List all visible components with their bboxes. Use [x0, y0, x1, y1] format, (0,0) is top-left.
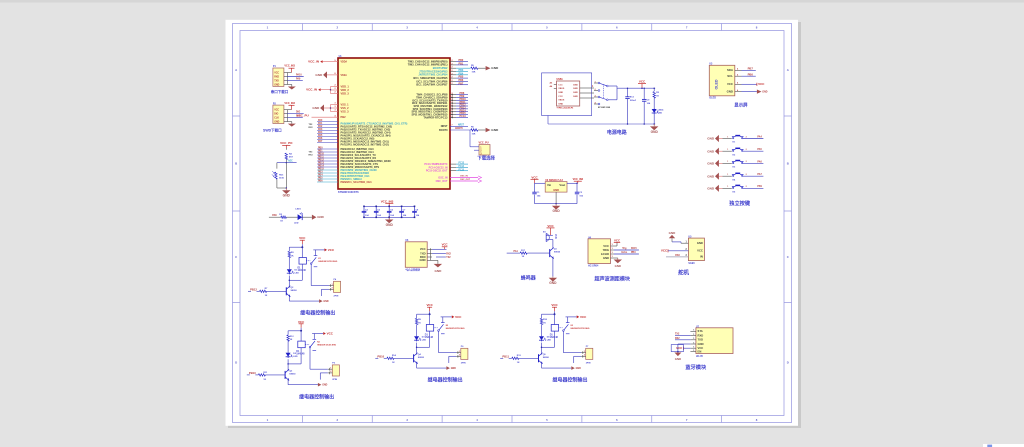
svg-text:VSS_2: VSS_2	[341, 106, 350, 110]
svg-text:PB7: PB7	[748, 67, 754, 71]
ground dot matrix	[432, 260, 442, 272]
svg-text:VCC: VCC	[274, 72, 279, 74]
svg-text:OSC_IN: OSC_IN	[460, 176, 468, 178]
svg-text:RX2: RX2	[446, 253, 451, 255]
power flag VCC relay K3	[542, 303, 559, 315]
svg-text:PB12: PB12	[250, 287, 257, 291]
ground power circuit	[650, 124, 658, 134]
ground OLED	[742, 90, 768, 94]
svg-text:2: 2	[452, 96, 453, 98]
label display	[734, 101, 748, 108]
ground LED1	[312, 215, 325, 220]
svg-text:PC13: PC13	[460, 115, 467, 118]
ground pins VSS	[312, 103, 338, 112]
svg-text:K2: K2	[446, 325, 448, 327]
svg-text:GND: GND	[558, 104, 563, 106]
svg-text:D: D	[235, 361, 237, 365]
svg-text:GND: GND	[727, 89, 733, 93]
power flag VCC relay K4	[288, 320, 305, 332]
svg-text:2PIN: 2PIN	[586, 362, 591, 364]
svg-text:PA4: PA4	[757, 135, 762, 138]
svg-text:PB1: PB1	[459, 63, 464, 66]
svg-text:TX2: TX2	[446, 257, 451, 259]
svg-text:1K: 1K	[280, 220, 283, 222]
svg-text:3: 3	[335, 110, 336, 112]
svg-text:PA6: PA6	[318, 137, 323, 140]
svg-text:CLK: CLK	[274, 117, 279, 119]
regulator U2 AMS1117-3.3	[535, 179, 578, 192]
connector U4 HC-SR04 ultrasonic	[588, 236, 614, 267]
svg-text:蜂鸣器: 蜂鸣器	[521, 274, 537, 281]
label relay control output 4	[553, 377, 588, 384]
resistor R14 1K base	[375, 354, 413, 364]
svg-text:2: 2	[452, 80, 453, 82]
svg-text:GND: GND	[707, 137, 715, 141]
svg-text:PB6/I2C1_SCL/TIM4_CH1: PB6/I2C1_SCL/TIM4_CH1	[341, 180, 373, 184]
svg-text:GND: GND	[707, 162, 715, 166]
connector P6 relay output	[439, 346, 468, 364]
svg-text:GND: GND	[615, 264, 621, 268]
svg-text:2PIN: 2PIN	[332, 379, 337, 381]
transistor Q3 S8050	[285, 369, 296, 380]
wire OLED SDA SCL	[742, 67, 756, 77]
svg-text:K3: K3	[571, 325, 573, 327]
svg-text:显示屏: 显示屏	[734, 101, 748, 108]
svg-text:PA1: PA1	[318, 122, 323, 125]
connector U6 dot matrix	[405, 240, 432, 271]
svg-text:TAMPER-RTC/PC13: TAMPER-RTC/PC13	[423, 115, 448, 119]
svg-text:1: 1	[727, 186, 728, 188]
ground relay K1	[289, 289, 329, 303]
svg-text:2: 2	[452, 113, 453, 115]
svg-text:2: 2	[452, 110, 453, 112]
capacitor C4 104	[362, 206, 370, 219]
svg-text:SG90: SG90	[688, 262, 695, 265]
svg-text:电源电路: 电源电路	[607, 129, 627, 136]
svg-text:PB12: PB12	[318, 160, 325, 162]
node ADC divider	[277, 160, 297, 164]
svg-text:LED: LED	[422, 339, 427, 341]
svg-text:1: 1	[727, 161, 728, 163]
power flag VCC relay contact K2	[441, 315, 463, 319]
wire MCU right pins group middle	[450, 92, 468, 118]
resistor R2 1K	[653, 87, 660, 108]
svg-text:GND: GND	[573, 84, 578, 86]
connector P1 serial download port	[273, 65, 296, 87]
svg-text:VDDA: VDDA	[341, 60, 348, 63]
ground relay K3	[542, 356, 582, 370]
svg-text:2: 2	[452, 104, 453, 106]
power flag VCC_IN pins VDD	[306, 85, 338, 94]
resistor R4 4K7	[285, 148, 294, 163]
svg-text:RXD: RXD	[420, 255, 426, 259]
svg-text:VCC_IN: VCC_IN	[308, 60, 319, 64]
svg-text:PA5: PA5	[757, 148, 762, 151]
svg-text:GND: GND	[697, 241, 703, 245]
svg-text:2: 2	[452, 102, 453, 104]
svg-text:PB0: PB0	[318, 148, 323, 150]
svg-text:VCC_IN: VCC_IN	[306, 88, 317, 92]
wire MCU right pins group upper	[450, 59, 468, 85]
ground P2	[287, 122, 296, 127]
svg-text:GND: GND	[603, 256, 609, 260]
ground bluetooth	[674, 344, 690, 361]
connector U7 bluetooth HC-05	[690, 326, 733, 358]
svg-text:VCC: VCC	[299, 236, 306, 240]
svg-text:1K: 1K	[517, 362, 520, 364]
svg-text:VCC: VCC	[274, 109, 279, 111]
svg-text:GND: GND	[675, 357, 681, 361]
resistor R10 1K relay LED	[540, 314, 547, 335]
LED D4 relay indicator	[539, 335, 551, 354]
switch S5 tact button	[723, 185, 764, 193]
svg-text:VCC: VCC	[758, 82, 765, 86]
svg-text:VCC: VCC	[697, 249, 703, 253]
resistor R12 1K relay LED	[287, 331, 294, 352]
svg-text:5516: 5516	[279, 177, 285, 179]
svg-text:GND: GND	[549, 281, 557, 285]
svg-text:继电器控制输出: 继电器控制输出	[300, 310, 335, 317]
svg-text:下载选择: 下载选择	[477, 154, 495, 161]
power flag VCC bluetooth	[671, 345, 690, 352]
wire USB to switch	[580, 85, 594, 98]
svg-text:GND: GND	[315, 73, 323, 77]
label relay control output 2	[299, 393, 334, 400]
resistor R17 1K buzzer base	[507, 250, 550, 258]
svg-text:PA1: PA1	[514, 250, 519, 253]
svg-text:PB5: PB5	[318, 178, 323, 180]
svg-text:PA0: PA0	[318, 119, 323, 122]
capacitor EC1 220uF	[625, 87, 636, 124]
svg-text:VCC: VCC	[442, 243, 448, 247]
svg-text:PA10: PA10	[296, 74, 302, 77]
svg-text:2PIN: 2PIN	[334, 295, 339, 297]
svg-text:USB1: USB1	[557, 79, 564, 81]
svg-text:PA7: PA7	[757, 173, 762, 176]
svg-text:2: 2	[335, 88, 336, 90]
transistor Q2 S8050	[286, 286, 297, 297]
svg-text:PB14: PB14	[318, 165, 325, 168]
power flag VCC relay contact K3	[566, 315, 588, 319]
ground ultrasonic	[614, 258, 622, 268]
svg-text:VCC: VCC	[614, 238, 620, 242]
wire port A pins PA0-PA7	[309, 119, 339, 143]
svg-text:GND: GND	[707, 186, 715, 190]
resistor R8 1K relay LED	[288, 247, 294, 268]
svg-text:220uF: 220uF	[630, 100, 637, 102]
svg-text:VCC: VCC	[661, 249, 668, 253]
resistor R11 1K base	[247, 371, 285, 381]
svg-text:S8050: S8050	[289, 373, 296, 375]
ground key S2	[707, 148, 722, 155]
svg-text:1K: 1K	[265, 295, 268, 297]
svg-text:VCC: VCC	[603, 244, 609, 248]
ground P1	[287, 85, 296, 90]
connector P3 boot select	[470, 130, 490, 156]
svg-text:C: C	[787, 255, 789, 259]
svg-text:PA3: PA3	[318, 128, 323, 131]
switch S3 tact button	[723, 160, 764, 168]
wire P1 TX/RX nets	[287, 74, 303, 81]
svg-text:OLED: OLED	[715, 79, 719, 89]
svg-text:Vout: Vout	[559, 183, 565, 187]
svg-text:HC-05: HC-05	[696, 355, 704, 358]
svg-text:PA8: PA8	[272, 214, 277, 217]
svg-text:7: 7	[452, 125, 453, 127]
ground cap bank	[385, 217, 393, 227]
LED D1 relay indicator	[287, 268, 299, 287]
wire dot matrix TXD RXD	[432, 253, 452, 258]
power flag VCC main	[638, 80, 646, 89]
svg-text:PC15: PC15	[459, 169, 465, 171]
svg-text:LED1: LED1	[295, 209, 301, 211]
svg-text:S8050: S8050	[418, 357, 425, 359]
svg-text:PA6: PA6	[757, 160, 762, 163]
ground key S1	[707, 135, 722, 142]
svg-text:VSS_1: VSS_1	[341, 102, 350, 106]
svg-text:OLED: OLED	[709, 97, 716, 100]
svg-text:PB15: PB15	[318, 169, 325, 171]
svg-text:继电器控制输出: 继电器控制输出	[299, 393, 334, 400]
LED D3 relay indicator	[414, 335, 426, 354]
label servo	[678, 269, 689, 277]
connector U5 servo SG90	[688, 237, 704, 265]
svg-text:VCC: VCC	[328, 248, 335, 252]
svg-text:PC15-OSC32_OUT: PC15-OSC32_OUT	[426, 170, 448, 173]
svg-text:1K: 1K	[263, 379, 266, 381]
svg-text:蓝牙模块: 蓝牙模块	[685, 363, 707, 371]
svg-text:TRIG: TRIG	[603, 248, 610, 252]
svg-text:PA15: PA15	[631, 247, 637, 250]
wire USB loop	[542, 73, 592, 124]
svg-text:NRST: NRST	[441, 125, 448, 128]
svg-text:PA7(SPI1_MOSI/ADC12_IN7/TIM3_C: PA7(SPI1_MOSI/ADC12_IN7/TIM3_CH2)	[341, 142, 389, 146]
svg-text:VCC_IN3: VCC_IN3	[284, 65, 295, 68]
svg-text:VCC_IN3: VCC_IN3	[284, 102, 295, 105]
switch S4 tact button	[723, 173, 764, 181]
svg-text:PB13: PB13	[318, 163, 325, 165]
svg-text:GND: GND	[707, 149, 715, 153]
svg-text:S8050: S8050	[291, 290, 298, 292]
relay K2 coil	[416, 314, 434, 348]
capacitor C9 104	[642, 87, 651, 124]
ground pull-down BOOT0	[486, 128, 499, 132]
svg-text:TXD: TXD	[274, 80, 279, 82]
label ultrasonic module	[594, 275, 631, 282]
svg-text:1: 1	[727, 149, 728, 151]
relay K4 contact	[305, 334, 336, 370]
power flag VCC servo	[661, 249, 689, 253]
ground photoresistor	[282, 163, 290, 198]
svg-text:1N4148: 1N4148	[425, 336, 434, 339]
svg-text:A: A	[787, 68, 789, 72]
svg-text:RXD: RXD	[698, 333, 704, 337]
svg-text:KF108P-0SB: KF108P-0SB	[598, 107, 611, 109]
transistor Q1 S8050	[550, 240, 561, 259]
svg-text:K1: K1	[318, 258, 320, 260]
label SWD download port	[263, 128, 282, 133]
svg-text:SCL: SCL	[727, 74, 733, 78]
wire Trig Echo	[614, 247, 639, 254]
power flag VCC relay K1	[289, 236, 306, 248]
svg-text:2: 2	[452, 107, 453, 109]
relay K3 coil	[541, 314, 559, 348]
power flag VCC_IN pin VDDA	[308, 60, 338, 64]
svg-text:2: 2	[746, 161, 747, 163]
op-amp U1 STM32F103C8T6 microcontroller	[338, 56, 450, 194]
svg-text:独立按键: 独立按键	[729, 199, 751, 207]
relay K1 coil	[289, 247, 307, 281]
svg-text:2: 2	[452, 93, 453, 95]
svg-text:VCC_IN3: VCC_IN3	[381, 199, 394, 203]
wire switch to rail	[548, 86, 655, 124]
svg-text:GND: GND	[386, 223, 394, 227]
power flag VCC regulator input	[531, 175, 539, 183]
svg-text:LED: LED	[295, 272, 300, 274]
svg-text:3: 3	[335, 106, 336, 108]
svg-text:10K: 10K	[472, 133, 476, 135]
ground key S4	[707, 173, 722, 180]
label power circuit	[607, 129, 627, 136]
svg-text:1: 1	[727, 136, 728, 138]
power flag VCC relay contact K4	[312, 331, 334, 335]
svg-text:HK4100F-DC5V-SHG: HK4100F-DC5V-SHG	[446, 327, 465, 330]
svg-text:EN: EN	[698, 349, 702, 353]
ground relay K4	[288, 373, 328, 387]
svg-text:STA: STA	[698, 329, 703, 333]
svg-text:GND: GND	[698, 342, 704, 346]
svg-text:PB10: PB10	[377, 354, 384, 358]
svg-text:1K: 1K	[543, 323, 546, 325]
svg-text:S8050: S8050	[554, 251, 561, 253]
svg-text:9: 9	[335, 60, 336, 62]
svg-text:PB3: PB3	[318, 172, 323, 174]
svg-text:TYPEC-2022-BCP6: TYPEC-2022-BCP6	[557, 108, 574, 110]
capacitor C5 104	[374, 206, 382, 219]
svg-text:GND: GND	[553, 188, 559, 192]
capacitor bank rails	[364, 206, 415, 217]
svg-text:VSS_3: VSS_3	[341, 109, 350, 113]
LED LED1	[294, 209, 312, 225]
svg-text:1K: 1K	[290, 339, 293, 341]
svg-text:VCC_IN3: VCC_IN3	[573, 178, 584, 181]
label relay control output 3	[428, 377, 463, 384]
buzzer B1	[543, 232, 557, 242]
svg-text:串口下载口: 串口下载口	[271, 89, 289, 94]
svg-text:2: 2	[452, 60, 453, 62]
ground buzzer	[549, 258, 557, 286]
switch S1 tact button	[723, 135, 764, 143]
svg-text:GND: GND	[651, 130, 659, 134]
svg-text:VCC_PU: VCC_PU	[297, 113, 309, 117]
svg-text:GND: GND	[669, 231, 676, 235]
wire port B pins PB0-PB15	[309, 148, 339, 183]
svg-text:PB4: PB4	[318, 174, 323, 177]
svg-text:PA4: PA4	[318, 131, 323, 134]
ground pin VSSA	[315, 71, 338, 78]
power flag VCC ultrasonic	[614, 238, 620, 246]
label serial download port	[271, 89, 289, 94]
svg-text:2: 2	[452, 99, 453, 101]
svg-text:1N4148: 1N4148	[298, 269, 307, 272]
svg-text:B: B	[235, 162, 237, 166]
svg-text:STM32F103C8T6: STM32F103C8T6	[338, 190, 359, 194]
ground servo	[669, 231, 676, 242]
svg-text:PB11: PB11	[318, 157, 324, 159]
svg-text:VCC: VCC	[551, 303, 558, 307]
svg-text:GND: GND	[434, 269, 442, 273]
svg-text:PB7: PB7	[459, 82, 464, 85]
svg-text:GND: GND	[283, 194, 291, 198]
svg-text:SDA: SDA	[727, 68, 733, 72]
svg-text:PC13: PC13	[459, 163, 465, 165]
svg-text:2: 2	[746, 136, 747, 138]
power flag VCC_IN3 cap bank	[381, 199, 394, 206]
svg-text:PA7: PA7	[318, 140, 323, 143]
svg-text:D: D	[787, 361, 789, 365]
svg-text:10K: 10K	[472, 72, 476, 74]
svg-text:GND: GND	[491, 128, 499, 132]
svg-text:Echo: Echo	[622, 252, 628, 254]
svg-text:DIO: DIO	[274, 113, 278, 115]
power flag VCC_PO	[280, 141, 293, 148]
switch SW1 power slide	[594, 81, 611, 109]
svg-text:1N4148: 1N4148	[296, 353, 305, 356]
power flag VCC relay K2	[417, 303, 434, 315]
svg-text:PB10: PB10	[318, 154, 325, 156]
svg-text:LED4: LED4	[658, 109, 664, 112]
wire PC13-PC15 pins	[450, 163, 468, 172]
wire P2 SWD nets	[287, 112, 303, 118]
svg-text:GND: GND	[558, 92, 563, 94]
schematic sheet	[226, 20, 802, 428]
svg-text:Vin: Vin	[547, 183, 552, 187]
svg-text:VBUS: VBUS	[558, 88, 565, 90]
svg-text:RXD: RXD	[274, 76, 279, 78]
svg-text:VCC: VCC	[420, 247, 426, 251]
svg-text:VCC: VCC	[298, 320, 305, 324]
svg-text:GND: GND	[312, 106, 320, 110]
power flag VCC buzzer	[547, 224, 555, 235]
svg-text:ECHO: ECHO	[601, 252, 609, 256]
svg-text:GND: GND	[274, 121, 279, 123]
svg-text:PB13: PB13	[249, 371, 256, 375]
svg-text:VCC: VCC	[676, 346, 683, 350]
svg-text:PB6: PB6	[748, 72, 754, 76]
svg-text:舵机: 舵机	[678, 269, 689, 277]
svg-text:TX2: TX2	[675, 334, 680, 336]
svg-text:TXD: TXD	[420, 251, 425, 255]
svg-text:GND: GND	[323, 301, 328, 303]
svg-text:HK4100F-DC5V-SHG: HK4100F-DC5V-SHG	[318, 260, 337, 263]
svg-text:4合1点阵模块: 4合1点阵模块	[405, 267, 420, 271]
svg-text:I2C1_SDA/TIM4_CH2/PB7: I2C1_SDA/TIM4_CH2/PB7	[416, 83, 448, 87]
svg-text:8: 8	[335, 73, 336, 75]
resistor R13 1K base	[500, 354, 538, 364]
label bluetooth module	[685, 363, 707, 371]
svg-text:GND: GND	[451, 368, 456, 370]
svg-text:VBUS: VBUS	[558, 100, 565, 102]
svg-text:VCC: VCC	[639, 80, 646, 84]
svg-text:PB11: PB11	[502, 354, 509, 358]
svg-text:PB2: PB2	[341, 115, 347, 119]
LED LED4 power indicator	[652, 108, 664, 125]
resistor R5 10K	[456, 65, 486, 74]
wire NRST	[450, 124, 468, 126]
svg-text:HC-SR04: HC-SR04	[588, 265, 599, 268]
svg-text:2: 2	[452, 83, 453, 85]
svg-text:Trig: Trig	[622, 248, 627, 250]
